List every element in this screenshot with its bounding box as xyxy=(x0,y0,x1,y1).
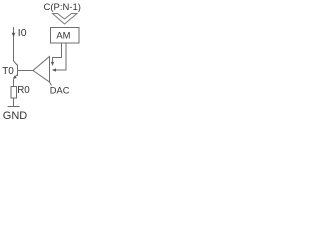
current source arrow I0 xyxy=(12,27,27,39)
wire AM output 2 to DAC xyxy=(52,43,66,72)
bus arrow into AM xyxy=(53,14,78,25)
svg-text:R0: R0 xyxy=(17,85,30,96)
ground xyxy=(3,107,28,123)
DAC triangle U1 xyxy=(33,57,70,96)
transistor T0 xyxy=(2,61,17,79)
label C(P:N-1) xyxy=(44,2,81,13)
svg-text:T0: T0 xyxy=(2,66,14,77)
svg-text:I0: I0 xyxy=(18,27,27,39)
wire emitter to R0 xyxy=(13,79,15,87)
analog memory AM box xyxy=(51,28,80,44)
wire DAC output to base of T0 xyxy=(18,70,33,72)
wire I0 to collector xyxy=(13,36,15,61)
resistor R0 xyxy=(11,85,30,98)
wire R0 to ground xyxy=(13,98,15,107)
svg-text:GND: GND xyxy=(3,110,28,120)
wire AM output 1 to DAC xyxy=(51,43,62,66)
svg-text:C(P:N-1): C(P:N-1) xyxy=(44,2,81,13)
svg-text:DAC: DAC xyxy=(50,85,70,95)
svg-text:AM: AM xyxy=(56,30,70,41)
